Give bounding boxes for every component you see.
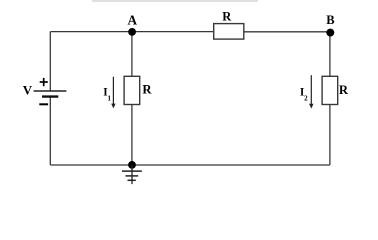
wire: middle vertical from bottom of left resistor R to ground junction [131, 105, 133, 166]
wire: left vertical from battery negative plate to bottom-left corner [49, 97, 51, 165]
svg-text:R: R [222, 10, 232, 24]
wire: top horizontal from left corner through node A to resistor R (top) [50, 31, 213, 33]
label I2 [300, 86, 308, 102]
svg-text:R: R [142, 83, 152, 97]
current arrow I1 [111, 77, 115, 109]
resistor R (right branch at node B) [322, 76, 338, 104]
svg-text:R: R [339, 83, 349, 97]
wire: left vertical from top-left corner to battery positive plate [49, 32, 51, 91]
wire: top horizontal from resistor R (top) to node B [244, 31, 330, 33]
wire: bottom horizontal from left corner through ground junction to right corner [50, 164, 330, 166]
svg-text:A: A [128, 13, 138, 28]
wire: right vertical from bottom of right resistor R to bottom wire [329, 105, 331, 166]
node B junction dot [326, 29, 334, 37]
resistor R (top, between A and B) [214, 24, 244, 39]
node A junction dot [128, 28, 136, 36]
resistor R (left branch at node A) [124, 76, 140, 104]
current arrow I2 [309, 75, 313, 108]
cropped text remnant at top edge [92, 0, 258, 2]
label I1 [103, 86, 111, 102]
svg-text:1: 1 [107, 94, 111, 102]
battery minus sign [39, 103, 48, 105]
battery V [34, 91, 67, 97]
ground junction dot [128, 161, 136, 169]
battery plus sign [40, 78, 48, 86]
wire: right vertical from node B to top of right resistor R [329, 32, 331, 77]
svg-text:B: B [326, 13, 334, 27]
svg-text:2: 2 [304, 94, 308, 102]
ground [122, 165, 142, 184]
svg-text:V: V [23, 83, 33, 98]
wire: middle vertical from node A to top of left resistor R [131, 32, 133, 77]
